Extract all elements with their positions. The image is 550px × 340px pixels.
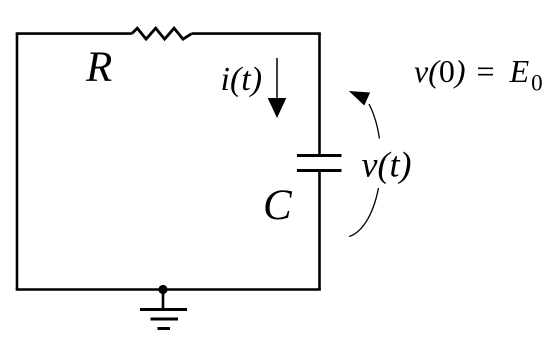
wire: right side upper (to capacitor) (318, 34, 321, 155)
ground bar 1 (140, 308, 187, 311)
voltage arc arrowhead (349, 91, 370, 106)
capacitor C1 top plate (297, 154, 342, 157)
current arrow i(t) shaft (276, 58, 278, 100)
wire: right side lower (capacitor to bottom) (318, 171, 321, 290)
svg-text:v(t): v(t) (362, 145, 412, 185)
wire: top side right segment (192, 32, 321, 35)
wire: bottom side (16, 288, 321, 291)
svg-text:v(0)=E0: v(0)=E0 (414, 53, 543, 96)
junction dot on bottom wire (158, 285, 167, 294)
ground stub wire (162, 290, 165, 310)
svg-text:i(t): i(t) (221, 61, 263, 98)
wire: left vertical side (16, 33, 19, 290)
ground bar 2 (151, 318, 179, 321)
resistor R1 zigzag (132, 28, 192, 39)
current arrow i(t) head (268, 98, 287, 118)
svg-text:C: C (263, 182, 293, 229)
voltage reference arc (349, 104, 381, 237)
svg-text:R: R (85, 44, 112, 91)
label v(t) background box (359, 139, 412, 189)
wire: top side left segment (16, 32, 132, 35)
ground bar 3 (158, 327, 171, 330)
capacitor C1 bottom plate (297, 169, 342, 172)
